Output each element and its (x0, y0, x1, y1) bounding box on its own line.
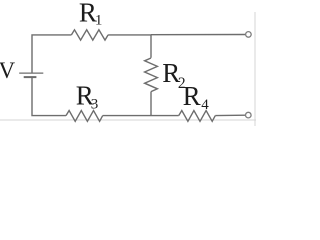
battery V long plate (+) (19, 72, 43, 74)
svg-text:V: V (0, 58, 16, 83)
wire: battery - terminal down and across to R3 (32, 78, 66, 116)
svg-text:R: R (183, 81, 201, 111)
wire: bottom junction to R4 (151, 115, 179, 117)
resistor R3 (66, 111, 103, 122)
svg-text:1: 1 (95, 13, 103, 29)
wire: R4 to bottom output terminal (215, 114, 245, 116)
wire: R1 to top junction (108, 34, 151, 36)
node: bottom junction of R3, R2 and R4 (150, 114, 152, 116)
svg-text:4: 4 (201, 97, 209, 113)
terminal: top output (246, 32, 252, 38)
wire: top junction down to R2 (150, 35, 152, 58)
svg-text:3: 3 (91, 96, 99, 112)
wire: R2 down to bottom junction (150, 92, 152, 116)
resistor R1 (71, 30, 108, 40)
wire: battery + terminal up and across to R1 (32, 35, 71, 73)
resistor R2 (145, 58, 158, 92)
battery V short plate (-) (24, 76, 37, 78)
resistor R4 (179, 111, 216, 122)
wire: top junction to top output terminal (151, 34, 246, 36)
wire: R3 to bottom junction (103, 115, 151, 117)
terminal: bottom output (246, 112, 252, 118)
node: top junction of R1, R2 and output wire (150, 34, 152, 36)
